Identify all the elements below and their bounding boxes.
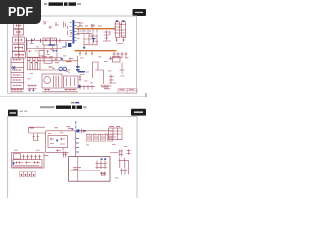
red mark near connector	[70, 32, 72, 35]
node blue specks bottom cluster	[29, 90, 35, 91]
page 2 logo badge top-right	[131, 109, 146, 116]
resistor specks band	[42, 58, 74, 61]
transistor pair blue circles	[59, 67, 67, 71]
connector CN blue bar	[72, 20, 74, 44]
node blue specks grid	[53, 50, 58, 51]
parts inside U2	[50, 138, 65, 145]
pins of U1	[114, 24, 126, 36]
wire vertical in shield	[77, 157, 79, 181]
node blue speck page2	[72, 128, 74, 129]
PDF badge overlay	[0, 0, 41, 24]
connector CN pin stubs	[74, 23, 76, 41]
svg-text:PDF: PDF	[8, 5, 33, 19]
resistor cluster right	[101, 85, 112, 89]
pins U3	[110, 131, 122, 137]
capacitor marks under bus	[80, 30, 92, 32]
capacitor pair mid-right	[79, 75, 81, 82]
node blue dots in shield	[101, 158, 107, 160]
wire right-mid vertical	[77, 56, 79, 72]
bus VCC orange top	[76, 28, 115, 30]
diode group right page2	[110, 149, 131, 156]
capacitor bank box	[64, 76, 79, 88]
pin label specks connector	[70, 22, 80, 39]
value labels caps row	[87, 133, 109, 136]
resistor R on y40 wire	[32, 38, 41, 42]
wire main page2	[46, 131, 113, 157]
wire loop right	[93, 62, 104, 84]
node cluster below-left	[11, 84, 37, 92]
page 1 logo badge top-right	[133, 9, 147, 16]
shield box page2	[69, 157, 111, 182]
page 2 header specks	[20, 111, 28, 112]
parts inside shield box	[96, 161, 108, 170]
capacitor marks in filter	[15, 155, 41, 166]
resistor marks near blue bar	[81, 72, 90, 75]
capacitor pair page2 tl	[33, 134, 40, 141]
value label scatter page2	[14, 132, 128, 178]
wire blue dashes above CN2	[75, 121, 77, 129]
IC U3 box right page2	[109, 128, 123, 140]
connector block tall left	[11, 58, 24, 89]
regulator box mid	[44, 58, 52, 63]
transistor chain right page2	[119, 158, 129, 175]
value label scatter page1	[27, 43, 129, 83]
wire blue bend	[62, 42, 66, 48]
connector CN2 page2	[76, 139, 79, 153]
diode D red dashed	[67, 26, 69, 35]
transistor blue T	[92, 39, 95, 43]
wire y44.8	[84, 39, 98, 49]
node blue nub stack top	[14, 22, 16, 23]
wire filter to box	[44, 155, 49, 157]
resistor marks below U1	[115, 37, 125, 43]
capacitor C left-violet	[26, 38, 28, 52]
capacitor pair on y40 wire	[53, 38, 61, 49]
relay marks	[45, 39, 56, 41]
wire main horizontal y40	[26, 40, 73, 42]
bus stub orange mid	[66, 61, 72, 63]
connector blue small	[76, 66, 80, 71]
wire y70	[40, 69, 70, 71]
value label rows in shield	[73, 167, 81, 170]
node blue bar	[78, 71, 85, 73]
regulator box small	[39, 51, 44, 57]
filter cluster bottom-left page2	[12, 153, 45, 168]
node bottom marks	[43, 89, 78, 92]
node blue square	[68, 43, 71, 47]
wire y60.8	[40, 60, 78, 62]
node blue nub on wire page2	[84, 130, 86, 132]
footer caption page1	[71, 102, 79, 104]
page separator line	[0, 93, 147, 97]
capacitor marks in row	[88, 136, 111, 141]
resistor small group far right	[109, 75, 116, 84]
title block page1	[118, 89, 137, 93]
bus blue segment	[49, 44, 56, 46]
page 1 drawing frame	[8, 16, 137, 93]
wire top scatter page1	[49, 22, 66, 30]
node blue specks band	[61, 58, 64, 60]
cap bank dots	[28, 60, 39, 63]
value specks near badge	[43, 22, 47, 25]
wire lower page2	[46, 152, 69, 154]
page 2 title bar text	[40, 106, 87, 109]
wire drops from bus	[77, 29, 98, 33]
filter box below bus	[84, 34, 92, 40]
blue square top of CN2	[76, 129, 79, 132]
IC U2 box page2	[48, 136, 68, 148]
resistor marks above big box	[56, 148, 67, 158]
wire vertical right column	[120, 63, 125, 77]
power input box stack	[13, 23, 26, 58]
resistor marks grid	[29, 50, 50, 55]
node blue marks bottom	[79, 85, 81, 88]
diode row bottom-right	[78, 85, 95, 90]
value labels above bus	[79, 25, 102, 28]
node blue dot in filter	[13, 162, 15, 164]
transformer T1	[42, 74, 62, 88]
relay box pair mid	[43, 38, 57, 45]
node blue tops U1	[116, 20, 124, 21]
resistor marks left of circles	[49, 66, 70, 73]
op-amp cluster page2	[80, 129, 85, 134]
capacitor group row page2	[86, 134, 112, 141]
wire horizontal in shield	[70, 170, 100, 172]
wire page2 top-left	[29, 127, 46, 133]
value labels above wire	[55, 126, 73, 129]
wire grid mid-left	[27, 41, 63, 58]
diode cluster at bus2 end	[109, 52, 128, 62]
transistor group mid	[89, 34, 98, 44]
node blue dot in U2	[56, 140, 58, 142]
page 1 title bar text	[44, 2, 81, 5]
capacitor drops under bus2	[79, 51, 93, 55]
diode pair right upper	[110, 57, 113, 60]
node specks right of connector	[79, 22, 95, 28]
pad row page2	[20, 172, 36, 177]
transistor Q blue mark	[12, 66, 15, 69]
bus secondary orange lower	[75, 50, 117, 52]
resistor group below U1	[103, 31, 111, 42]
value specks shield bottom-right	[100, 173, 106, 176]
page 2 drawing frame	[8, 117, 137, 198]
resistor marks shield lower	[101, 172, 107, 176]
capacitor bank grid	[28, 57, 41, 70]
node blue dot on wire	[31, 40, 33, 42]
pad dots	[21, 174, 35, 176]
resistor marks in stack	[14, 24, 24, 56]
value label specks band	[42, 56, 59, 63]
pins in tall block	[13, 59, 22, 87]
value label specks	[103, 87, 108, 90]
value labels above U3	[109, 125, 120, 128]
wire vertical chain left	[18, 22, 20, 58]
value label specks tl	[30, 127, 35, 130]
title block text specks	[120, 88, 135, 91]
node blue speck	[83, 47, 85, 49]
page 2 logo badge top-left	[8, 110, 18, 117]
IC U1 right-top boxes	[116, 22, 126, 38]
